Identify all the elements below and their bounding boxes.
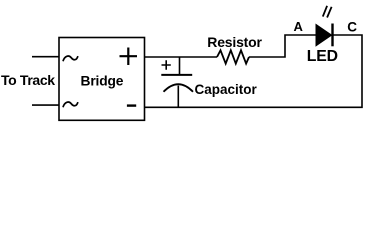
wire AC input bottom stub bbox=[32, 104, 59, 106]
bridge + terminal mark bbox=[120, 48, 138, 66]
wire + output to resistor bbox=[145, 56, 218, 58]
AC input symbol ~ top bbox=[63, 56, 78, 61]
wire capacitor to bottom rail bbox=[177, 86, 179, 108]
AC input symbol ~ bottom bbox=[63, 102, 78, 107]
svg-text:Bridge: Bridge bbox=[81, 74, 124, 89]
svg-text:Resistor: Resistor bbox=[207, 34, 262, 50]
capacitor polarity + sign bbox=[162, 60, 171, 70]
capacitor C1 top plate bbox=[161, 74, 192, 76]
svg-text:A: A bbox=[294, 19, 304, 34]
LED light emission slashes bbox=[323, 6, 332, 18]
wire capacitor branch from + rail bbox=[179, 57, 181, 75]
wire cathode to right and down to bottom rail bbox=[145, 35, 363, 107]
wire AC input top stub bbox=[32, 56, 59, 58]
LED cathode bar bbox=[331, 24, 333, 47]
wire resistor to LED with rise bbox=[249, 35, 317, 57]
svg-text:LED: LED bbox=[307, 48, 338, 65]
resistor R1 zigzag bbox=[217, 50, 249, 63]
svg-text:To Track: To Track bbox=[1, 72, 55, 88]
bridge - terminal mark bbox=[127, 104, 136, 106]
svg-text:C: C bbox=[347, 20, 357, 35]
bridge rectifier U1 (Bridge) bbox=[59, 38, 145, 121]
LED D1 triangle bbox=[316, 25, 332, 46]
svg-text:Capacitor: Capacitor bbox=[195, 82, 258, 97]
capacitor C1 curved plate bbox=[164, 84, 194, 92]
